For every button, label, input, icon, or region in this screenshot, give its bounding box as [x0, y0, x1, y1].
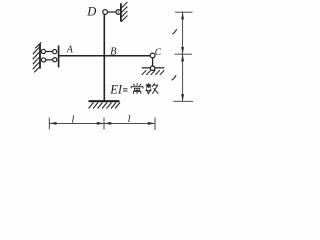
pin circle at D	[103, 10, 108, 15]
dimension line bottom	[49, 118, 155, 131]
pin circle at D wall	[116, 10, 121, 15]
arrow right-middle-down	[181, 54, 184, 61]
pin dot at D wall	[118, 11, 119, 12]
pin circle at C	[150, 53, 155, 58]
link lower at A support	[46, 59, 53, 61]
tick right-middle	[174, 53, 192, 55]
ground line at C	[142, 67, 165, 69]
pin circle upper-left A support	[41, 49, 45, 53]
dimension line right	[173, 12, 193, 101]
svg-text:C: C	[155, 48, 162, 58]
svg-text:A: A	[66, 45, 74, 56]
arrow right-middle-up	[181, 47, 184, 54]
link upper at A support	[45, 51, 52, 53]
hatching at D wall	[121, 2, 128, 22]
pin circle lower-right A support	[53, 58, 57, 62]
fixed base line	[89, 100, 120, 102]
end bar at A	[58, 45, 60, 67]
arrow bottom center-right	[104, 122, 111, 125]
member DB-base vertical column	[103, 14, 105, 101]
svg-text:l: l	[128, 114, 131, 125]
tick bottom-right	[154, 118, 156, 131]
svg-text:l: l	[72, 114, 75, 125]
label l right-lower	[172, 75, 177, 80]
svg-text:B: B	[110, 47, 117, 58]
arrow right-bottom	[181, 94, 184, 101]
pin circle lower-left A support	[41, 58, 45, 62]
svg-text:EI: EI	[109, 83, 123, 97]
roller link at C	[152, 58, 154, 66]
tick right-top	[175, 11, 193, 13]
arrow bottom far-right	[148, 122, 155, 125]
hatching at C ground	[142, 70, 165, 75]
tick right-bottom	[173, 100, 193, 102]
label l right-upper	[172, 29, 177, 34]
arrow bottom far-left	[49, 122, 56, 125]
tick bottom-center	[103, 118, 105, 130]
support wall at D	[120, 3, 122, 21]
arrow right-top	[181, 12, 184, 19]
hanzi chang (常)	[131, 83, 143, 94]
svg-text:D: D	[86, 4, 96, 18]
member AB-BC horizontal beam	[59, 55, 151, 57]
hanzi shu (数)	[146, 83, 159, 94]
hatching at fixed base	[89, 103, 121, 109]
link at D	[108, 11, 117, 13]
roller circle at C	[150, 66, 155, 71]
arrow bottom center-left	[97, 122, 104, 125]
hatching at A wall	[33, 42, 41, 72]
pin circle upper-right A support	[53, 50, 57, 54]
support wall at A	[39, 44, 41, 69]
label equals	[123, 89, 128, 91]
tick bottom-left	[48, 118, 50, 130]
